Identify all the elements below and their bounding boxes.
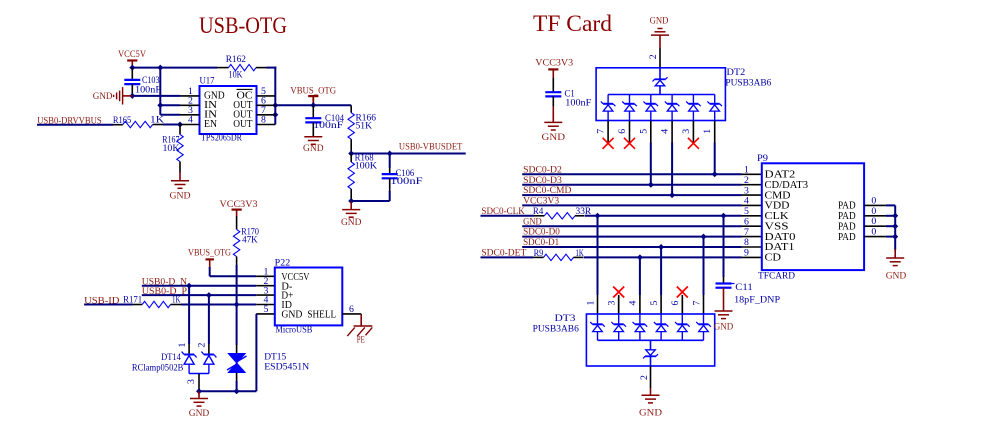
- svg-text:SDC0-DET: SDC0-DET: [481, 248, 526, 259]
- svg-text:VCC5V: VCC5V: [118, 49, 146, 60]
- svg-text:GND: GND: [281, 309, 302, 321]
- svg-text:1: 1: [585, 300, 596, 305]
- svg-text:GND: GND: [170, 190, 191, 201]
- svg-text:GND: GND: [523, 216, 542, 227]
- svg-text:0: 0: [871, 195, 876, 206]
- svg-text:SDC0-D0: SDC0-D0: [523, 227, 560, 238]
- svg-text:4: 4: [188, 115, 193, 126]
- svg-text:9: 9: [744, 248, 749, 259]
- svg-text:7: 7: [744, 227, 749, 238]
- svg-text:4: 4: [744, 196, 749, 207]
- svg-text:MicroUSB: MicroUSB: [275, 324, 312, 335]
- svg-text:ESD5451N: ESD5451N: [264, 362, 309, 373]
- svg-text:USB0-VBUSDET: USB0-VBUSDET: [399, 142, 463, 153]
- svg-text:6: 6: [670, 300, 681, 305]
- svg-text:R165: R165: [113, 115, 131, 126]
- svg-text:GND: GND: [714, 322, 734, 333]
- svg-text:R162: R162: [226, 54, 246, 65]
- svg-text:SDC0-D2: SDC0-D2: [523, 164, 562, 175]
- svg-text:PE: PE: [357, 334, 365, 345]
- svg-text:VBUS_OTG: VBUS_OTG: [290, 85, 336, 96]
- svg-text:10K: 10K: [163, 143, 180, 154]
- svg-text:C11: C11: [735, 282, 753, 293]
- svg-text:2: 2: [197, 342, 208, 347]
- svg-text:5: 5: [264, 304, 269, 315]
- svg-text:3: 3: [186, 379, 197, 384]
- svg-text:RClamp0502B: RClamp0502B: [132, 363, 184, 374]
- svg-text:18pF_DNP: 18pF_DNP: [734, 294, 781, 305]
- svg-text:SHELL: SHELL: [307, 309, 336, 321]
- svg-text:CD: CD: [765, 252, 782, 264]
- svg-text:51K: 51K: [356, 121, 373, 132]
- svg-text:TF Card: TF Card: [533, 11, 612, 36]
- svg-text:P9: P9: [757, 153, 768, 164]
- svg-text:DT14: DT14: [161, 352, 181, 363]
- svg-text:1K: 1K: [172, 294, 181, 305]
- svg-text:3: 3: [606, 300, 617, 305]
- svg-text:1: 1: [177, 342, 188, 347]
- svg-text:USB-OTG: USB-OTG: [199, 13, 287, 38]
- svg-text:6: 6: [349, 304, 354, 315]
- svg-text:OUT: OUT: [233, 118, 253, 130]
- svg-text:R171: R171: [123, 295, 142, 306]
- svg-text:100nF: 100nF: [565, 98, 592, 109]
- svg-text:0: 0: [871, 206, 876, 217]
- svg-text:PUSB3AB6: PUSB3AB6: [533, 324, 579, 335]
- svg-text:100nF: 100nF: [135, 85, 162, 96]
- svg-text:6: 6: [744, 216, 749, 227]
- svg-text:R9: R9: [534, 248, 544, 259]
- svg-text:8: 8: [261, 115, 266, 126]
- svg-text:GND: GND: [303, 143, 324, 154]
- svg-text:PUSB3AB6: PUSB3AB6: [725, 77, 771, 88]
- svg-text:3: 3: [681, 129, 692, 134]
- svg-text:GND: GND: [639, 408, 662, 419]
- svg-text:1K: 1K: [150, 114, 164, 125]
- svg-text:1K: 1K: [576, 248, 584, 259]
- svg-text:VCC3V3: VCC3V3: [220, 199, 258, 210]
- svg-text:P22: P22: [275, 257, 291, 268]
- svg-text:5: 5: [649, 300, 660, 305]
- svg-text:7: 7: [691, 300, 702, 305]
- svg-text:5: 5: [744, 206, 749, 217]
- svg-text:VCC3V3: VCC3V3: [523, 196, 559, 207]
- svg-text:U17: U17: [200, 76, 215, 87]
- svg-text:4: 4: [660, 129, 671, 134]
- svg-text:GND: GND: [341, 217, 362, 228]
- svg-text:100nF: 100nF: [390, 176, 423, 187]
- svg-text:EN: EN: [204, 118, 217, 130]
- svg-text:VCC3V3: VCC3V3: [535, 57, 573, 68]
- svg-text:10K: 10K: [229, 70, 243, 81]
- svg-text:GND: GND: [542, 132, 566, 143]
- svg-text:8: 8: [744, 237, 749, 248]
- svg-text:0: 0: [871, 216, 876, 227]
- svg-text:TPS2065DR: TPS2065DR: [201, 133, 242, 144]
- svg-text:2: 2: [648, 54, 659, 59]
- svg-text:2: 2: [744, 175, 749, 186]
- svg-text:1: 1: [702, 129, 713, 134]
- svg-text:PAD: PAD: [838, 231, 856, 243]
- svg-text:4: 4: [628, 300, 639, 305]
- svg-text:R4: R4: [533, 206, 543, 217]
- svg-text:0: 0: [871, 227, 876, 238]
- svg-text:33R: 33R: [576, 206, 592, 217]
- svg-text:SDC0-CLK: SDC0-CLK: [481, 206, 524, 217]
- svg-text:2: 2: [639, 375, 650, 380]
- svg-text:5: 5: [638, 129, 649, 134]
- svg-text:SDC0-D3: SDC0-D3: [523, 175, 562, 186]
- svg-text:100nF: 100nF: [313, 120, 344, 131]
- svg-text:6: 6: [617, 129, 628, 134]
- svg-text:TFCARD: TFCARD: [758, 271, 795, 282]
- svg-text:DT3: DT3: [555, 313, 576, 324]
- svg-text:47K: 47K: [242, 235, 258, 246]
- svg-text:GND: GND: [886, 270, 907, 281]
- svg-text:7: 7: [596, 129, 607, 134]
- svg-text:GND: GND: [93, 91, 113, 102]
- svg-text:SDC0-D1: SDC0-D1: [523, 237, 559, 248]
- svg-text:VBUS_OTG: VBUS_OTG: [188, 247, 231, 258]
- svg-text:100K: 100K: [355, 160, 378, 171]
- svg-text:GND: GND: [650, 15, 669, 26]
- svg-text:GND: GND: [189, 408, 210, 419]
- svg-text:1: 1: [744, 165, 749, 176]
